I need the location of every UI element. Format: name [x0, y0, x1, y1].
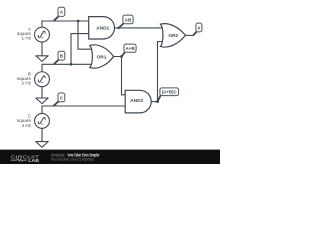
- svg-text:AND2: AND2: [130, 98, 143, 104]
- svg-text:2 Hz: 2 Hz: [22, 81, 32, 86]
- junction dot net A: [77, 20, 80, 23]
- ground for VC: [36, 142, 48, 148]
- junction dot AND1 output (AB label attach): [117, 27, 119, 29]
- wire: source VC bottom to ground: [41, 128, 43, 141]
- svg-text:4 Hz: 4 Hz: [22, 123, 32, 128]
- voltage source VA (square 1 Hz): [17, 26, 49, 42]
- junction dot net B: [70, 63, 73, 66]
- node flag A: [54, 7, 65, 21]
- svg-text:A+B: A+B: [125, 46, 135, 51]
- node flag C: [54, 93, 65, 106]
- wire net X: OR2 output stub: [185, 34, 194, 36]
- footer CircuitLab logo: [11, 154, 40, 162]
- wire: source VB bottom to ground: [41, 87, 43, 98]
- footer bar: [0, 150, 220, 164]
- wire: source VA bottom to ground: [41, 42, 43, 56]
- svg-text:1 Hz: 1 Hz: [22, 36, 32, 41]
- AND gate AND2: [125, 90, 151, 113]
- junction dot AND2 output corner: [156, 100, 159, 103]
- svg-text:AB: AB: [125, 17, 132, 22]
- OR gate OR1: [90, 45, 114, 68]
- node flag A+B: [122, 44, 136, 56]
- svg-text:AND1: AND1: [96, 25, 109, 31]
- OR gate OR2: [160, 24, 185, 47]
- svg-text:LAB: LAB: [28, 158, 39, 163]
- voltage source VC (square 4 Hz): [17, 113, 49, 128]
- svg-text:OR1: OR1: [97, 54, 107, 60]
- wire net B: source VB top up to horizontal, right to OR1 input 2: [42, 64, 93, 72]
- svg-text:http://circuitlab.com/c/72dr6g: http://circuitlab.com/c/72dr6g45jwz: [51, 157, 94, 162]
- wire net C: source VC top up and right to AND2 input 2: [42, 106, 127, 114]
- AND gate AND1: [89, 17, 115, 39]
- wire net (A+B)C: AND2 output right, up, to OR2 input 2: [151, 42, 163, 102]
- voltage source VB (square 2 Hz): [17, 72, 49, 87]
- ground for VB: [36, 98, 48, 104]
- node flag (A+B)C: [158, 88, 179, 101]
- node flag X: [193, 23, 202, 35]
- ground for VA: [36, 56, 48, 62]
- node flag AB: [119, 15, 133, 28]
- wire net A: branch down from junction to OR1 input 1: [78, 21, 93, 49]
- svg-text:(A+B)C: (A+B)C: [162, 90, 178, 95]
- wire net B: branch up from junction to AND1 input 2: [71, 34, 90, 65]
- junction dot OR1 output corner: [120, 55, 123, 58]
- svg-text:OR2: OR2: [168, 33, 178, 39]
- wire net A: source VA top up and right to AND1 input 1: [42, 21, 90, 27]
- node flag B: [54, 51, 65, 64]
- wire net A+B: OR1 output right, down, to AND2 input 1: [113, 57, 127, 95]
- wire net AB: AND1 output to OR2 input 1: [115, 27, 163, 29]
